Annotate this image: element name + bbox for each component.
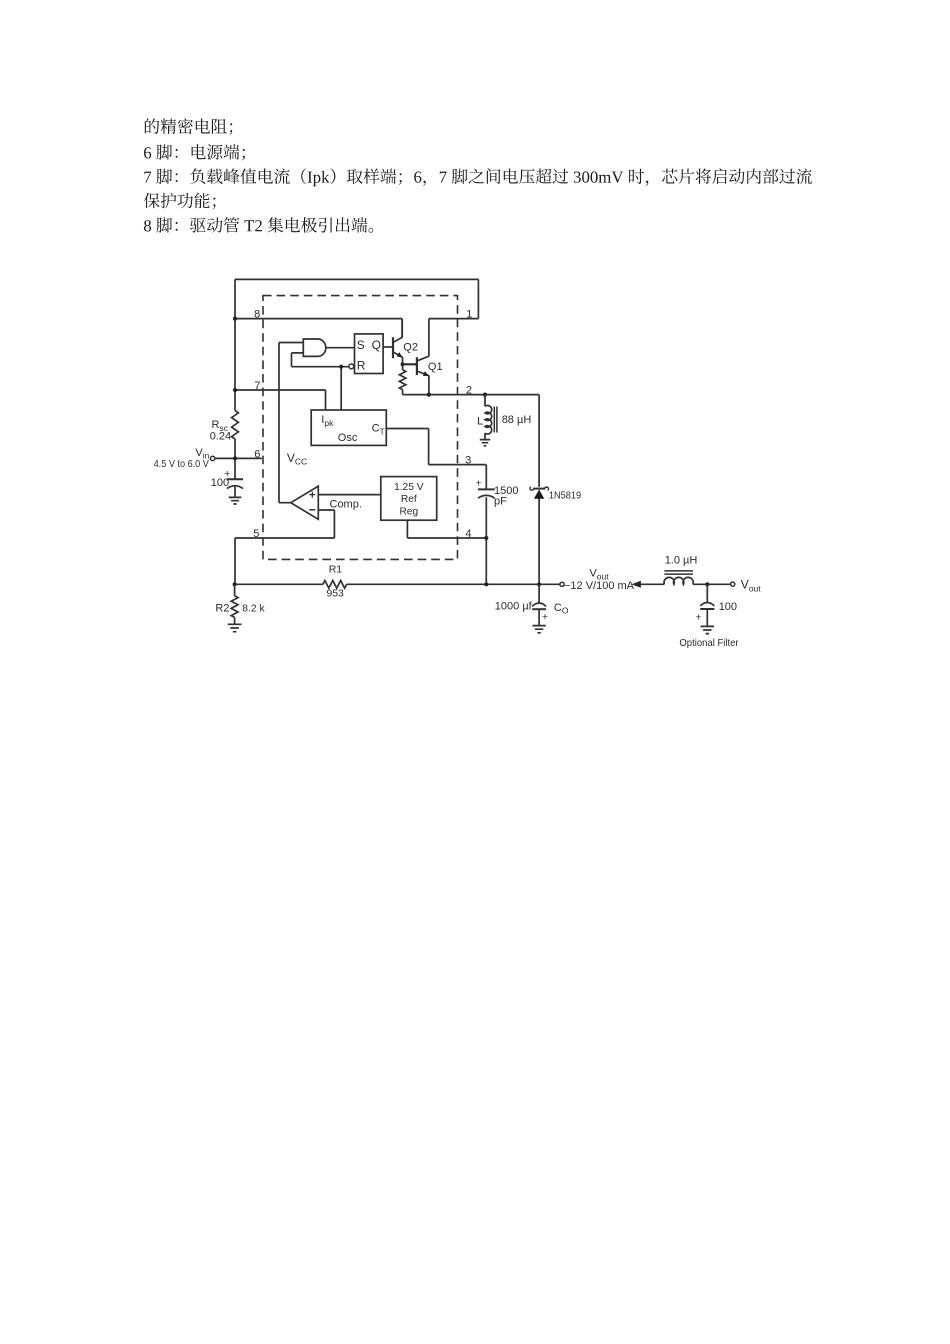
svg-text:Q: Q — [372, 338, 381, 352]
svg-text:8.2 k: 8.2 k — [242, 603, 265, 614]
ground below CO — [532, 626, 545, 633]
paragraph text: Chinese pin description lines — [144, 118, 812, 232]
wire diode to output rail — [538, 498, 540, 584]
junction dot Q1 emitter pin2 — [427, 393, 431, 397]
comparator triangle — [291, 486, 319, 519]
wire 1.25V ref to comparator non-inverting input — [318, 494, 381, 496]
wire CT pin 3 — [386, 429, 486, 489]
svg-text:7: 7 — [254, 380, 260, 392]
wire oscillator to R input and AND gate — [292, 353, 349, 410]
resistor Rsc — [232, 411, 239, 440]
transistor Q2 — [392, 337, 394, 358]
resistor R1 — [323, 581, 347, 589]
oscillator box Ipk/Osc/CT — [311, 410, 386, 445]
svg-text:3: 3 — [465, 455, 471, 467]
svg-text:−12 V/100 mA: −12 V/100 mA — [564, 580, 635, 592]
svg-text:Q1: Q1 — [428, 361, 443, 373]
comparator plus input mark — [309, 492, 315, 498]
wire Q output to Q2 base — [383, 346, 392, 348]
transistor Q1 — [416, 357, 418, 375]
svg-text:Reg: Reg — [399, 507, 418, 518]
wire pin 1 to Q1 collector — [429, 319, 479, 357]
svg-text:8: 8 — [254, 309, 260, 321]
svg-text:4: 4 — [465, 528, 471, 540]
svg-text:4.5 V to 6.0 V: 4.5 V to 6.0 V — [154, 459, 210, 470]
svg-text:R: R — [357, 359, 366, 373]
latch R inverter bubble — [349, 364, 354, 369]
arrow to optional filter — [632, 581, 641, 588]
Vout right terminal circle — [731, 582, 735, 586]
ground below filter cap — [701, 626, 715, 633]
ground below L — [480, 440, 490, 446]
junction dot pin8 — [233, 317, 237, 321]
wire pin 5 feedback to comparator inverting input — [235, 510, 334, 583]
IC boundary dashed box — [263, 296, 458, 560]
svg-text:100: 100 — [719, 601, 737, 613]
wire pin 7 to Ipk input — [235, 390, 326, 410]
ground below 100uF — [229, 497, 242, 504]
wire pin 2 switch emitter — [403, 395, 539, 487]
junction dot pin4/1500pF — [484, 536, 488, 540]
resistor R2 — [231, 584, 238, 624]
junction dot rail left — [233, 582, 237, 586]
1.25V ref reg box — [381, 477, 437, 521]
junction dot pin7 — [233, 388, 237, 392]
wire pin 6 from Vin terminal — [215, 457, 262, 459]
svg-text:1: 1 — [466, 309, 472, 321]
AND gate U1A — [303, 339, 325, 356]
capacitor 100uF input — [227, 478, 243, 480]
svg-text:1.0 µH: 1.0 µH — [665, 555, 698, 567]
svg-text:2: 2 — [466, 385, 472, 397]
svg-text:R1: R1 — [329, 565, 343, 576]
output rail with R1 — [235, 583, 560, 585]
junction dot Q1 base — [401, 362, 405, 366]
diode D1 1N5819 schottky — [533, 488, 545, 490]
svg-text:88 µH: 88 µH — [502, 414, 532, 426]
svg-text:R2: R2 — [215, 602, 229, 614]
SR latch box — [355, 334, 384, 374]
inductor 1.0uH optional filter — [664, 577, 693, 584]
svg-text:+: + — [542, 612, 548, 623]
capacitor CO 1000uF — [538, 584, 540, 603]
svg-text:1.25 V: 1.25 V — [394, 482, 424, 493]
junction dot rail diode — [537, 582, 541, 586]
svg-text:Osc: Osc — [338, 432, 358, 444]
svg-text:6: 6 — [254, 448, 260, 460]
svg-text:Q2: Q2 — [403, 342, 418, 354]
svg-text:Comp.: Comp. — [330, 498, 362, 510]
svg-text:953: 953 — [327, 588, 345, 599]
capacitor 100 optional filter — [706, 584, 708, 602]
ground below R2 — [228, 624, 242, 631]
wire filter to Vout — [693, 583, 731, 585]
wire top rail pin1/pin8 to Vin — [235, 279, 478, 318]
svg-text:L: L — [477, 415, 483, 427]
junction dot L pin2 — [483, 393, 487, 397]
wire left Vin rail — [234, 279, 236, 479]
junction dot rail 1500pF — [484, 582, 488, 586]
svg-text:0.24: 0.24 — [210, 431, 231, 443]
svg-text:Optional Filter: Optional Filter — [679, 638, 739, 649]
junction dot pin6 — [233, 456, 237, 460]
svg-text:+: + — [476, 479, 482, 490]
wire AND output to S input — [326, 347, 354, 349]
svg-text:5: 5 — [253, 528, 259, 540]
svg-text:Ref: Ref — [401, 494, 417, 505]
junction dot filter — [705, 582, 709, 586]
junction dot R line — [339, 365, 343, 369]
Vout output terminal circle — [560, 582, 564, 586]
wire Q2 emitter to Q1 base — [403, 363, 417, 365]
svg-text:S: S — [357, 338, 365, 352]
svg-text:pF: pF — [494, 495, 507, 507]
Vin terminal — [210, 456, 214, 460]
wire pin 4 from ref reg — [407, 520, 486, 538]
svg-text:+: + — [696, 612, 702, 623]
svg-text:100: 100 — [211, 477, 229, 489]
svg-text:1N5819: 1N5819 — [549, 491, 581, 502]
wire comparator output to AND gate input — [279, 343, 304, 503]
resistor Q1 base-emitter — [399, 364, 405, 394]
wire 1500pF to pin4 node and ground rail — [485, 497, 487, 584]
svg-text:1000 µf: 1000 µf — [495, 601, 533, 613]
inductor L 88uH — [484, 395, 486, 407]
wire pin 8 to Q2 collector — [235, 319, 402, 338]
comparator minus input mark — [309, 509, 315, 511]
capacitor 1500pF — [478, 488, 495, 490]
